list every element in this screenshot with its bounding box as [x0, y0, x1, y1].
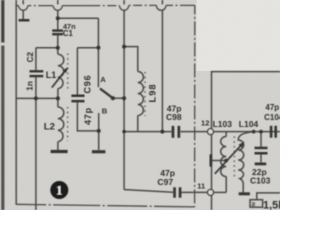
wire C96 bottom L	[77, 102, 98, 131]
wire L1-L2 tap	[57, 89, 59, 107]
wire pin 12 into IC	[214, 131, 280, 133]
capacitor C1	[52, 29, 63, 35]
svg-text:C1: C1	[63, 29, 74, 38]
capacitor C98	[172, 126, 181, 138]
figure number disc 1	[50, 181, 68, 199]
wire rail C96-A	[77, 47, 98, 49]
capacitor C103	[255, 147, 268, 155]
wire B node to ground	[98, 131, 100, 150]
junction node C103 top	[259, 130, 263, 134]
wire L98 top branch	[124, 47, 138, 72]
junction node A wire	[96, 46, 100, 50]
inductor L1	[58, 54, 64, 88]
wire ground rail left	[16, 97, 58, 99]
capacitor C97	[173, 187, 181, 197]
svg-text:1,5k: 1,5k	[263, 200, 280, 211]
svg-text:C103: C103	[250, 176, 271, 186]
ground bar shield stub	[19, 19, 30, 22]
junction node L1-L2 tap	[56, 96, 60, 100]
svg-text:C2: C2	[26, 51, 35, 62]
svg-text:11: 11	[197, 181, 206, 190]
wire C97 run	[124, 190, 173, 193]
shield box top edge (chain line with hops)	[16, 5, 195, 10]
svg-text:C97: C97	[157, 177, 173, 187]
wire B contact	[98, 113, 100, 131]
IC block outline	[212, 72, 281, 210]
wire switch pole to node	[113, 97, 124, 99]
junction node osc wire upper	[122, 45, 126, 49]
wire core tap L103	[212, 160, 226, 162]
junction node C1 top	[56, 16, 60, 20]
wire node 18 horizontal	[58, 17, 99, 19]
capacitor C104	[270, 126, 277, 138]
svg-text:47p: 47p	[83, 107, 93, 125]
wire A contact vertical	[97, 18, 99, 87]
junction node B-C96	[97, 129, 101, 133]
junction node core tap	[224, 159, 228, 163]
dotted core line L1	[67, 54, 69, 89]
ground bar C103	[255, 163, 267, 166]
dotted core line L2	[67, 107, 69, 141]
svg-text:L98: L98	[146, 83, 157, 102]
capacitor C2	[30, 70, 44, 77]
svg-text:12: 12	[201, 119, 209, 128]
wire C1 bottom	[57, 35, 59, 54]
wire rail C2-C1	[36, 47, 58, 49]
dotted core line L103-L104	[233, 137, 235, 179]
paper background	[0, 0, 280, 210]
svg-text:C96: C96	[82, 75, 92, 94]
svg-text:47p: 47p	[265, 103, 279, 112]
shield box left edge	[15, 0, 17, 205]
ground bar B contact	[92, 150, 106, 153]
junction node C1 bottom	[56, 46, 60, 50]
pin 12 terminal	[208, 129, 214, 135]
amplifier box bottom-right	[250, 200, 263, 208]
wire C103 to ground	[260, 154, 262, 162]
junction node switch pole	[111, 96, 115, 100]
wire C103 drop	[260, 132, 262, 147]
capacitor C96	[71, 95, 84, 103]
junction node osc wire lower	[122, 130, 126, 134]
svg-text:L104: L104	[239, 119, 259, 129]
svg-text:L2: L2	[44, 121, 55, 132]
shield ground stub top-left	[22, 0, 24, 4]
junction node L104 top	[252, 130, 256, 134]
wire C98 to pin 12	[181, 131, 208, 133]
inductor L2	[58, 107, 64, 142]
wire C1 feed from top	[57, 0, 59, 4]
svg-text:L1: L1	[46, 70, 57, 80]
wire L98 bottom	[137, 116, 139, 132]
inductor L104	[238, 132, 253, 193]
svg-text:1n: 1n	[26, 81, 35, 91]
noise texture	[0, 0, 280, 210]
junction node buffer wire	[160, 130, 164, 134]
inductor L103	[221, 137, 226, 177]
svg-text:A: A	[100, 75, 106, 84]
inductor L98	[138, 72, 144, 116]
wire L103 bottom	[225, 177, 227, 193]
junction node C2 ground rail	[34, 96, 38, 100]
wire C2 bottom to page bottom	[35, 77, 37, 210]
junction node osc wire pole	[122, 96, 126, 100]
dotted core line L98	[144, 72, 146, 116]
white page area top-right	[197, 0, 281, 71]
svg-text:L103: L103	[213, 119, 233, 129]
wire output bottom-right	[257, 193, 280, 200]
case bar pin side	[210, 154, 213, 166]
ground bar L104	[239, 192, 250, 195]
wire C2 top	[35, 48, 37, 70]
svg-text:C104: C104	[264, 113, 280, 122]
page border bar left	[1, 0, 4, 43]
wire C97 to pin 11	[181, 191, 207, 193]
pin 11 terminal	[208, 189, 214, 195]
wire pin 11 to L103	[214, 191, 227, 193]
wire buffer feed from top	[161, 0, 163, 4]
svg-text:1: 1	[56, 183, 63, 198]
arrow through L1	[52, 68, 68, 88]
switch arm A-B	[100, 89, 113, 99]
svg-text:B: B	[102, 107, 108, 116]
svg-text:C98: C98	[166, 112, 182, 122]
arrow through L103	[215, 142, 244, 173]
ground bar L2	[51, 150, 68, 153]
shield box bottom edge (chain line)	[16, 204, 194, 207]
wire L103 top	[225, 132, 227, 137]
wire node to C98	[124, 131, 171, 133]
wire C96 top	[76, 48, 78, 95]
shield box right edge (chain line)	[194, 5, 196, 207]
wire L2 to ground	[57, 142, 59, 150]
svg-text:≥: ≥	[252, 201, 256, 208]
wire oscillator feed from top	[123, 0, 125, 4]
